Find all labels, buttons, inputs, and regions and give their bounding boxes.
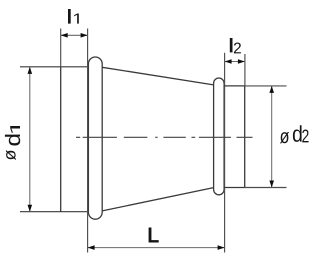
node od1 top arrow [28,67,33,74]
node l1 right arrow [81,33,88,38]
wire od2 top extension [245,85,287,87]
node L right arrow [218,245,225,250]
wire extension line through bead1 (l1 right + L left) [87,29,89,253]
wire l2 right extension [244,54,246,86]
node bead 2 stadium at d2 junction [214,78,225,195]
wire right cylinder right edge [244,86,246,188]
node label l2 letter l [230,38,233,52]
node label l1 subscript 1 [74,14,79,24]
wire right cylinder top edge [224,85,245,87]
wire cone bottom edge [102,188,213,211]
node L left arrow [88,245,95,250]
node label od2 subscript 2 [302,129,308,142]
wire centerline dash-dot axis [76,136,253,138]
node l2 right arrow [238,59,245,64]
wire L dimension line [88,247,225,249]
wire left cylinder top edge with od1 extension [20,66,89,68]
wire right cylinder bottom edge [224,187,245,189]
wire l1 left extension [60,29,62,67]
node od1 bottom arrow [28,205,33,212]
wire left cylinder bottom edge with od1 extension [20,211,89,213]
wire od2 dimension line [271,86,273,188]
node label od2 glyph d [293,125,302,142]
wire extension line through bead2 (l2 left + L right) [224,53,226,253]
wire left cylinder left edge [60,67,62,212]
node od2 bottom arrow [269,181,274,188]
node label od2 glyph o-slash [280,132,289,143]
wire l2 dimension line [225,61,245,63]
node l2 left arrow [225,59,232,64]
node l1 left arrow [61,33,68,38]
wire od1 dimension line [29,67,31,212]
node bead 1 stadium at d1 junction [88,57,102,219]
node label od1 glyph d (rotated) [5,134,20,145]
node label od1 subscript 1 (rotated) [10,126,20,133]
node label l1 letter l [68,9,71,24]
wire l1 dimension line [61,34,88,36]
node label L [149,227,159,242]
node label l2 subscript 2 [234,43,241,54]
node label od1 glyph o-slash (rotated) [6,150,16,160]
wire od2 bottom extension [245,187,287,189]
node od2 top arrow [269,86,274,93]
wire cone top edge [102,67,213,85]
